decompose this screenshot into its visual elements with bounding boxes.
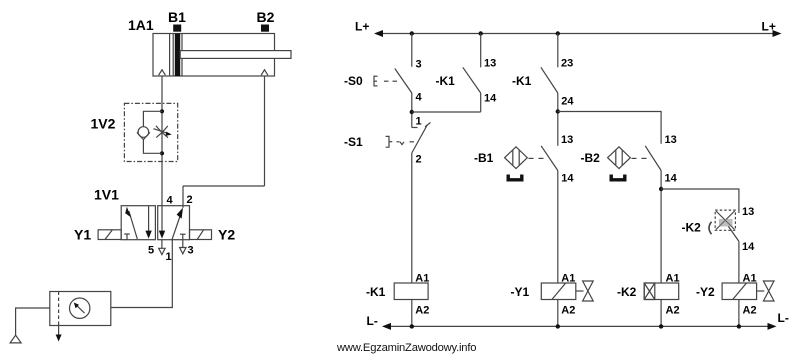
node: 1V2 top junction (160, 109, 164, 113)
node on L+ rail branch B (479, 31, 483, 35)
svg-text:13: 13 (561, 134, 573, 146)
svg-text:-S1: -S1 (344, 135, 363, 149)
svg-text:A2: A2 (415, 305, 429, 317)
svg-text:14: 14 (742, 241, 755, 253)
solenoid coil -Y1 (541, 281, 593, 301)
svg-text:L+: L+ (355, 20, 369, 34)
wire: horizontal to valve port 2 (183, 185, 265, 187)
svg-text:1V2: 1V2 (91, 116, 116, 132)
contact -K1 (NO) blade (463, 67, 481, 93)
wire -Y2 coil to L- (738, 300, 740, 327)
wire -K2 contact to -Y2 coil (738, 241, 740, 283)
wire: bypass bottom (143, 140, 162, 154)
svg-text:Y1: Y1 (74, 227, 91, 243)
wire -K2 coil to L- (660, 300, 662, 327)
node C2 junction dot (556, 109, 560, 113)
wire branch C from rail (557, 34, 559, 68)
svg-text:-K1: -K1 (512, 74, 532, 88)
wire: valve port 1 down to air supply (111, 240, 173, 308)
wire parallel link node1 to -K1 branch (412, 111, 481, 113)
valve 1V1 right position box (158, 206, 190, 240)
node 1 junction dot (410, 110, 414, 114)
wire to -K2 contact branch (661, 189, 739, 213)
svg-text:-B2: -B2 (581, 151, 601, 165)
cylinder left port arrow (159, 70, 166, 75)
contact -K2 blade (728, 226, 739, 241)
svg-text:4: 4 (416, 92, 423, 104)
svg-text:www.EgzaminZawodowy.info: www.EgzaminZawodowy.info (336, 342, 476, 354)
svg-text:24: 24 (561, 96, 574, 108)
svg-text:A2: A2 (743, 305, 757, 317)
air service unit body (50, 292, 111, 326)
svg-text:23: 23 (561, 58, 573, 70)
svg-text:5: 5 (148, 245, 154, 257)
L+ rail (374, 30, 782, 37)
node B2 bottom junction (659, 187, 663, 191)
flow control valve 1V2 dashed enclosure (124, 103, 177, 161)
svg-text:A1: A1 (561, 273, 575, 285)
svg-text:-K1: -K1 (436, 74, 456, 88)
svg-text:13: 13 (484, 58, 496, 70)
wire branch to -B2 (558, 112, 661, 144)
relay coil -K2 (with remanence box) (644, 283, 679, 300)
cylinder 1A1 body (153, 34, 275, 77)
node on L- rail (Y2) (737, 324, 741, 328)
svg-text:1: 1 (166, 251, 172, 263)
svg-text:4: 4 (167, 195, 174, 207)
svg-text:-K2: -K2 (682, 221, 702, 235)
svg-text:-K2: -K2 (617, 285, 637, 299)
svg-text:-S0: -S0 (344, 74, 363, 88)
svg-text:A1: A1 (666, 273, 680, 285)
node on L+ rail branch A (410, 31, 414, 35)
left box flow arrow (diagonal up-left) (125, 207, 137, 239)
right box port4 flow arrow (vertical down) (159, 206, 165, 239)
left box flow arrow (vertical down) (145, 206, 151, 239)
sensor mark B1 (black square) (173, 25, 181, 32)
sensor -B1 magnet symbol (508, 175, 522, 180)
sensor -B2 (proximity) (608, 147, 647, 169)
svg-text:-B1: -B1 (474, 151, 494, 165)
svg-text:2: 2 (416, 154, 422, 166)
exhaust triangle port 5 (159, 240, 165, 255)
cylinder piston rod (180, 51, 291, 59)
wire -S1 down to -K1 coil (411, 153, 413, 283)
svg-text:3: 3 (416, 59, 422, 71)
svg-text:A2: A2 (666, 305, 680, 317)
check valve (circle on seat) (137, 127, 150, 140)
svg-text:B2: B2 (257, 9, 275, 25)
node on L- rail (Y1) (556, 324, 560, 328)
node: 1V2 bottom junction (160, 151, 164, 155)
wire -B1 down to -Y1 coil (557, 171, 559, 284)
svg-text:13: 13 (665, 134, 677, 146)
contact -S1 (NO pushbutton) blade (412, 123, 431, 154)
L- rail (382, 323, 777, 330)
wire -S0 to node 1 (411, 93, 413, 128)
wire branch B from rail (480, 34, 482, 68)
exhaust triangle port 3 (180, 240, 186, 254)
svg-text:3: 3 (188, 245, 194, 257)
wire: valve port 2 up (182, 186, 184, 208)
svg-text:-Y1: -Y1 (511, 285, 530, 299)
wire: cylinder right port down (264, 76, 266, 186)
contact -K2 dashed box (715, 210, 735, 230)
wire: service unit intake left (16, 308, 50, 335)
air service unit drain arrow (56, 326, 62, 342)
svg-text:A1: A1 (415, 273, 429, 285)
svg-text:2: 2 (187, 194, 193, 206)
left box blocked port T (124, 234, 130, 240)
solenoid coil -Y2 (722, 281, 774, 301)
wire -Y1 coil to L- (557, 300, 559, 327)
svg-text:B1: B1 (168, 9, 186, 25)
wire: bypass top (143, 111, 162, 127)
pushbutton actuator -S0 (374, 76, 397, 87)
pushbutton actuator -S1 (386, 136, 414, 147)
valve 1V1 left position box (121, 206, 155, 240)
node on L- rail (K2) (659, 324, 663, 328)
svg-text:A1: A1 (743, 273, 757, 285)
contact -K2 actuator arc (709, 222, 712, 234)
solenoid Y1 (98, 230, 121, 240)
sensor -B1 (proximity) (505, 147, 544, 169)
right box flow arrow (diagonal up-right) (172, 208, 183, 241)
svg-text:Y2: Y2 (218, 227, 235, 243)
contact -S0 (NC pushbutton) blade (395, 69, 412, 94)
svg-text:13: 13 (742, 206, 754, 218)
svg-text:1A1: 1A1 (128, 17, 154, 33)
svg-text:L+: L+ (762, 20, 776, 34)
svg-text:14: 14 (484, 93, 497, 105)
wire to node C2 (557, 93, 559, 146)
wire -K1 contact down and left to node 1 (480, 93, 482, 112)
svg-text:-K1: -K1 (366, 285, 386, 299)
node on L- rail (K1) (410, 324, 414, 328)
contact -B2 (NO) blade (645, 146, 661, 171)
sensor mark B2 (black square) (261, 25, 269, 32)
right box blocked port T (180, 234, 186, 240)
contact -B1 (NO) blade (541, 146, 558, 171)
wire: cylinder left port down to valve port 4 (main line) (161, 76, 163, 206)
wire -K1 coil to L- (411, 300, 413, 327)
svg-text:-Y2: -Y2 (696, 285, 715, 299)
solenoid Y2 (190, 230, 212, 240)
svg-text:1: 1 (416, 116, 422, 128)
pressure gauge (70, 298, 90, 318)
intake filter triangle (10, 335, 21, 343)
sensor -B2 magnet symbol (611, 175, 625, 180)
contact -K1 second (NO) blade (541, 67, 558, 93)
air service unit dashed element (58, 292, 60, 326)
wire branch A from rail (411, 34, 413, 67)
cylinder piston lines (170, 34, 182, 77)
throttle (adjustable) on main line (153, 126, 171, 138)
relay coil -K1 (394, 283, 428, 300)
node on L+ rail branch C (556, 31, 560, 35)
svg-text:A2: A2 (561, 305, 575, 317)
cylinder right port arrow (261, 70, 268, 75)
svg-text:1V1: 1V1 (94, 187, 119, 203)
svg-text:14: 14 (561, 173, 574, 185)
svg-text:L-: L- (367, 314, 378, 328)
svg-text:14: 14 (665, 173, 678, 185)
wire -B2 down to node (660, 171, 662, 284)
svg-text:L-: L- (778, 311, 789, 325)
